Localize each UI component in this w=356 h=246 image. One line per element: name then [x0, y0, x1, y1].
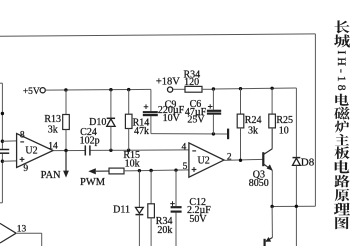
R15 label — [123, 150, 140, 170]
capacitor C12 — [170, 170, 181, 246]
svg-text:9: 9 — [23, 164, 28, 174]
R34 top label — [183, 69, 200, 88]
wire +18V rail — [213, 87, 296, 90]
power +18V terminal — [168, 87, 173, 92]
Q3 label — [249, 169, 269, 189]
wire pin 8 — [2, 140, 16, 142]
wire +5V rail — [45, 88, 151, 91]
svg-text:U2: U2 — [25, 146, 37, 157]
node Q3 emitter bottom — [270, 205, 273, 208]
svg-text:3k: 3k — [248, 126, 258, 137]
C6 label — [185, 99, 207, 126]
node C6 top — [212, 87, 215, 90]
C9 label — [158, 100, 185, 125]
svg-text:PWM: PWM — [80, 177, 106, 188]
node junction left pin9 — [1, 160, 4, 163]
node C6 bottom — [212, 132, 215, 135]
svg-text:8050: 8050 — [249, 178, 269, 189]
node R13 bottom — [64, 149, 67, 152]
resistor R34 bottom — [148, 171, 155, 246]
diode D8 — [293, 88, 301, 246]
power +5V terminal — [40, 88, 45, 93]
capacitor C6 — [207, 89, 221, 134]
capacitor C24 — [85, 145, 90, 155]
node R14 bottom — [127, 149, 130, 152]
resistor R25 — [269, 88, 276, 148]
wire C9-C6 bottom bus — [151, 133, 227, 135]
R34 bottom label — [156, 216, 173, 236]
op-amp U1 pin13 partial — [0, 223, 16, 243]
node R25 top — [270, 87, 273, 90]
svg-text:D10: D10 — [89, 117, 106, 128]
resistor R13 — [63, 90, 70, 151]
resistor R14 — [125, 90, 132, 151]
node R14 top — [127, 88, 130, 91]
wire U2 pin14 output line — [53, 149, 189, 152]
PAN arrow — [63, 151, 69, 178]
node D10 bottom — [109, 149, 112, 152]
node R13 top — [64, 88, 67, 91]
svg-text:25V: 25V — [187, 115, 205, 126]
svg-text:10V: 10V — [163, 113, 181, 124]
op-amp U2 right — [189, 143, 224, 177]
svg-text:3k: 3k — [48, 125, 58, 136]
R14 label — [133, 117, 150, 137]
svg-text:PAN: PAN — [41, 170, 61, 181]
svg-text:47k: 47k — [134, 126, 149, 137]
svg-text:20k: 20k — [157, 225, 172, 236]
svg-text:50V: 50V — [189, 214, 207, 225]
wire bottom right link — [272, 205, 315, 207]
svg-text:R13: R13 — [44, 114, 61, 125]
C12 label — [187, 197, 211, 225]
node D8 bottom — [295, 205, 298, 208]
node R24 top — [239, 87, 242, 90]
svg-text:10k: 10k — [125, 158, 140, 169]
svg-text:+18V: +18V — [156, 76, 180, 87]
ground bar — [227, 129, 229, 140]
capacitor left C — [0, 150, 9, 154]
node junction left pin8 — [1, 140, 4, 143]
node D10 top — [109, 88, 112, 91]
transistor Q3 — [263, 128, 273, 207]
node C12 top — [174, 168, 177, 171]
resistor R24 — [237, 89, 244, 161]
svg-text:102p: 102p — [80, 135, 100, 146]
node D11 top — [138, 169, 141, 172]
svg-text:120: 120 — [184, 77, 199, 88]
R13 label — [44, 114, 61, 136]
resistor R34 top — [173, 86, 214, 92]
PWM arrow — [88, 168, 109, 174]
transistor bottom partial — [265, 207, 273, 246]
svg-text:IH-18: IH-18 — [335, 50, 349, 93]
svg-text:2: 2 — [227, 153, 232, 163]
svg-text:D8: D8 — [301, 156, 315, 168]
svg-text:+5V: +5V — [23, 87, 40, 97]
svg-text:U2: U2 — [197, 155, 209, 166]
svg-text:8: 8 — [20, 131, 25, 141]
wire left input rail — [0, 83, 2, 203]
svg-text:R24: R24 — [245, 115, 262, 126]
capacitor C9 — [143, 89, 158, 133]
C24 label — [80, 127, 100, 147]
wire pin13 output — [16, 233, 42, 246]
svg-text:4: 4 — [182, 142, 187, 152]
R25 label — [276, 115, 293, 136]
node R34b top — [149, 169, 152, 172]
diode D10 — [107, 90, 115, 151]
wire top rail — [0, 34, 315, 36]
wire U2R output — [224, 159, 263, 160]
svg-text:10: 10 — [279, 126, 289, 137]
resistor R15 — [109, 168, 189, 174]
wire right rail — [314, 34, 316, 206]
svg-text:R25: R25 — [276, 115, 293, 126]
diode D11 — [136, 171, 144, 246]
node R24 bottom — [239, 159, 242, 162]
sidebar title CJK 长城IH-18电磁炉主板电路原理图 — [334, 20, 350, 229]
R24 label — [245, 115, 262, 136]
svg-text:D11: D11 — [113, 205, 130, 216]
node junction left A — [1, 112, 4, 115]
svg-text:5: 5 — [183, 162, 188, 172]
wire pin 9 — [2, 160, 16, 162]
svg-text:14: 14 — [48, 142, 58, 152]
op-amp U2 left — [17, 134, 54, 168]
